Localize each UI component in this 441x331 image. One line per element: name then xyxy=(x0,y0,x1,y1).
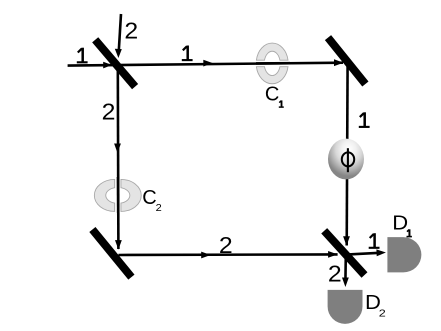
label D2 xyxy=(365,292,386,319)
mirror M2 (bottom left) xyxy=(92,230,131,278)
arrow into BS2 from top xyxy=(343,236,350,246)
label C2 xyxy=(142,187,162,214)
wire: input beam 2 from top into BS1 xyxy=(119,14,121,54)
arrow into BS2 xyxy=(328,251,338,258)
svg-text:2: 2 xyxy=(124,18,138,44)
ring coupler C1 (torus on upper path) xyxy=(256,43,288,84)
label 1 (right path) xyxy=(359,112,370,127)
svg-text:2: 2 xyxy=(328,261,342,287)
mirror M1 (top right) xyxy=(328,38,365,84)
arrow mid bottom path xyxy=(201,252,211,259)
wire: input beam 1 and upper path (left edge to top-right mirror) xyxy=(68,63,343,66)
label D1 xyxy=(392,212,412,236)
wire: right vertical path (mirror M1 down through phase shifter to BS2) xyxy=(345,63,348,246)
wire segment over C2 xyxy=(117,177,120,213)
wire: output 1 from BS2 to detector D1 xyxy=(346,253,382,255)
wire: output 2 from BS2 down to detector D2 xyxy=(344,255,347,283)
arrow on input 1 into BS1 xyxy=(103,62,112,69)
arrow mid left path xyxy=(114,144,121,154)
detector D1 xyxy=(387,237,421,272)
label C1 xyxy=(265,84,284,108)
svg-text:D: D xyxy=(392,212,408,234)
svg-text:C: C xyxy=(265,84,279,106)
label 1 (output to D1) xyxy=(369,233,380,248)
wire: bottom path (mirror M2 to BS2) xyxy=(118,253,337,256)
arrow into mirror M2 xyxy=(115,240,122,250)
phi symbol stem xyxy=(347,148,349,172)
phase shifter sphere xyxy=(328,139,364,180)
svg-text:2: 2 xyxy=(102,99,116,125)
phi symbol circle xyxy=(342,152,354,166)
beam splitter BS2 (bottom right) xyxy=(324,231,364,275)
arrow into mirror M1 xyxy=(334,59,344,66)
wire: left vertical path (BS1 down to bottom-left mirror) xyxy=(117,64,120,249)
svg-text:2: 2 xyxy=(219,233,233,259)
svg-text:2: 2 xyxy=(379,308,386,319)
detector D2 xyxy=(328,290,363,324)
arrow into D1 xyxy=(376,249,386,256)
svg-text:C: C xyxy=(142,187,156,209)
svg-text:2: 2 xyxy=(156,202,162,213)
arrow on input 2 into BS1 xyxy=(115,49,122,58)
arrow into D2 xyxy=(342,278,349,288)
label 1 (input beam 1) xyxy=(77,48,88,63)
label 1 (upper path) xyxy=(182,46,193,61)
beam splitter BS1 (top left) xyxy=(95,40,135,87)
wire segment over C1 xyxy=(256,62,290,65)
arrow mid upper path xyxy=(203,60,213,67)
ring coupler C2 (torus on left path) xyxy=(94,179,141,211)
